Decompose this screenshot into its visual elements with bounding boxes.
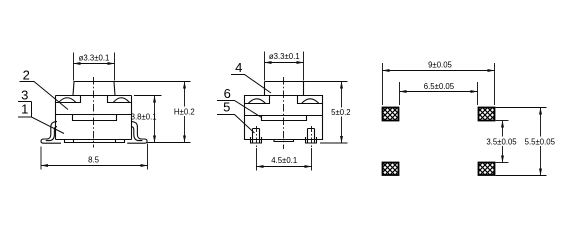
label 2 underline and leader <box>20 82 69 110</box>
label 3-1 bracket vertical <box>31 102 33 118</box>
dim H: dimension line <box>184 82 186 143</box>
arrow d3.3L left <box>74 62 81 65</box>
dim 3.5: reference lines <box>496 120 509 122</box>
base bottom tick right <box>115 140 117 143</box>
text 3.5 <box>484 137 520 147</box>
center line middle view <box>283 77 285 149</box>
button left edge <box>73 82 74 96</box>
left dome contact arc <box>59 98 76 103</box>
svg-text:3.5±0.05: 3.5±0.05 <box>486 138 517 147</box>
label 1 underline and leader <box>18 117 64 134</box>
dim d3.3 middle: dimension line <box>265 62 304 64</box>
solder pad bottom-right <box>479 163 495 176</box>
dim 3.8 top extension <box>134 95 162 97</box>
right foot m outer block <box>306 137 317 143</box>
arrow H top <box>183 82 186 89</box>
button right edge <box>303 82 305 96</box>
dim 5.5: dimension line <box>540 108 542 176</box>
right dome arc m <box>302 99 319 104</box>
label 6 underline and leader <box>217 101 262 118</box>
svg-text:4.5±0.1: 4.5±0.1 <box>271 156 297 165</box>
svg-text:8.5: 8.5 <box>88 156 100 165</box>
button top line + H dimension extension <box>74 81 191 83</box>
arrow 3.8 bottom <box>153 136 156 143</box>
left leg inner contour <box>46 127 57 141</box>
arrow 3.5 bottom <box>501 156 504 163</box>
dim 3.8 left: dimension line <box>154 96 156 143</box>
body bottom edge <box>56 139 132 141</box>
dim 3.5: dimension line <box>502 121 504 163</box>
base bottom plate <box>65 140 125 143</box>
svg-text:4: 4 <box>235 60 242 75</box>
svg-text:9±0.05: 9±0.05 <box>428 61 452 70</box>
dim 8.5: dimension line <box>41 165 148 167</box>
arrow 6.5 right <box>471 90 478 93</box>
arrow 8.5 left <box>41 164 48 167</box>
arrow 6.5 left <box>400 90 407 93</box>
dim 9: extensions <box>382 63 384 105</box>
text 5 <box>331 108 352 118</box>
arrow 5 bottom <box>340 136 343 143</box>
arrow 4.5 right <box>305 165 312 168</box>
center standoff boss m <box>274 140 294 142</box>
svg-text:ø3.3±0.1: ø3.3±0.1 <box>79 54 110 63</box>
dim d3.3 middle: extensions <box>264 52 266 81</box>
left leg outer contour <box>41 122 61 144</box>
base bottom tick left <box>73 140 75 143</box>
label 3 underline <box>18 101 32 103</box>
right foot center/extension line <box>311 126 313 148</box>
left cover notch m <box>245 96 270 104</box>
solder pad top-left <box>383 108 399 121</box>
seam line m <box>245 115 323 117</box>
dim 9: dimension line <box>383 70 495 72</box>
arrow d3.3M right <box>297 61 304 64</box>
arrow d3.3L right <box>108 62 115 65</box>
dim 5.5: reference lines <box>496 107 547 109</box>
svg-text:5: 5 <box>223 100 230 115</box>
label 4 underline and leader <box>231 75 271 94</box>
arrow d3.3M left <box>265 61 272 64</box>
right cover notch <box>108 96 132 103</box>
arrow 9 right <box>488 69 495 72</box>
text H <box>173 107 197 117</box>
svg-text:3.8±0.1: 3.8±0.1 <box>131 113 157 122</box>
button top line + 5 dim extension <box>265 81 348 83</box>
arrow 3.5 top <box>501 121 504 128</box>
bottom reference line for 3.8 and H <box>148 142 191 144</box>
button right edge <box>114 82 115 96</box>
right leg outer contour <box>127 122 147 144</box>
dim 5 bottom reference <box>320 142 348 144</box>
right leg inner contour <box>131 127 142 141</box>
base recess <box>73 115 117 121</box>
left foot center/extension line <box>256 126 258 148</box>
right foot m inner tab <box>308 129 315 144</box>
solder pad top-right <box>479 108 495 121</box>
svg-text:H±0.2: H±0.2 <box>174 108 195 117</box>
svg-text:5±0.2: 5±0.2 <box>331 108 350 117</box>
arrow 8.5 right <box>141 164 148 167</box>
right dome contact arc <box>113 98 129 103</box>
dim 5: dimension line <box>341 82 343 144</box>
arrow 5.5 top <box>539 108 542 115</box>
svg-text:6.5±0.05: 6.5±0.05 <box>424 82 455 91</box>
svg-text:5.5±0.05: 5.5±0.05 <box>525 138 556 147</box>
body outline <box>245 96 323 140</box>
left cover notch <box>56 96 81 103</box>
svg-text:3: 3 <box>21 87 28 102</box>
dim 4.5: dimension line <box>257 166 312 168</box>
arrow H bottom <box>183 136 186 143</box>
body right edge <box>131 96 133 140</box>
label 5 underline and leader <box>217 115 255 134</box>
dim 6.5: extensions <box>399 82 401 105</box>
button left edge <box>264 82 266 96</box>
center line left view <box>93 77 95 148</box>
left foot m inner tab <box>253 129 260 144</box>
solder pad bottom-left <box>383 163 399 176</box>
body top edge <box>56 95 132 97</box>
svg-text:1: 1 <box>21 102 28 117</box>
arrow 3.8 top <box>153 96 156 103</box>
left foot m outer block <box>251 137 262 143</box>
arrow 9 left <box>383 69 390 72</box>
arrow 5.5 bottom <box>539 169 542 176</box>
base recess m <box>262 116 307 121</box>
svg-text:ø3.3±0.1: ø3.3±0.1 <box>269 52 300 61</box>
dim 8.5: extension lines <box>40 147 42 170</box>
left dome arc m <box>248 99 265 104</box>
right cover notch m <box>298 96 323 104</box>
body left edge <box>55 96 57 140</box>
dim 6.5: dimension line <box>400 91 478 93</box>
text 5.5 <box>523 137 557 147</box>
arrow 5 top <box>340 82 343 89</box>
cover/base seam line <box>56 114 132 116</box>
arrow 4.5 left <box>257 165 264 168</box>
dim d3.3 left: extension lines <box>73 53 75 81</box>
svg-text:2: 2 <box>23 68 30 83</box>
dim d3.3 left: dimension line <box>74 63 115 65</box>
